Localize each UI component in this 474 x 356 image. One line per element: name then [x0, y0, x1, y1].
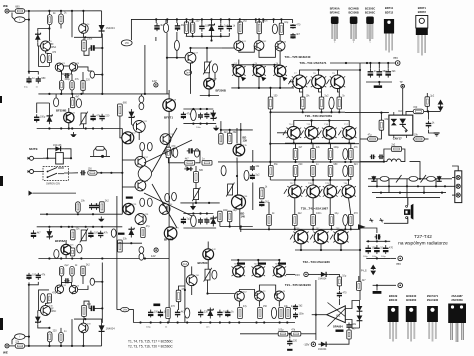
wire emitD2 bot 4: [350, 177, 352, 181]
transistor T14: [159, 204, 173, 215]
junction stage3 bot 5: [101, 257, 103, 259]
wire D coll stub 1: [311, 121, 313, 127]
wire bus2 stub 12: [258, 19, 260, 23]
junction sense b: [77, 213, 79, 215]
wire driver top rail: [221, 129, 253, 131]
wire bus2 stub 11: [255, 19, 257, 23]
wire R49 top: [338, 89, 340, 98]
svg-text:BF245A: BF245A: [330, 6, 340, 10]
capacitor C28: [225, 310, 234, 317]
wire B2 coll stub 2: [257, 260, 259, 266]
wire A2 emits 3: [278, 301, 280, 307]
diode D9 1N4148: [52, 146, 64, 151]
wire opamp top to tri: [338, 299, 340, 305]
wire D2 emit stub 2: [312, 198, 314, 215]
ferrite bead L1: [15, 17, 25, 23]
junction bus caps: [28, 71, 30, 73]
wire R78 top: [358, 276, 360, 281]
wire R46 top: [302, 89, 304, 98]
capacitor C19: [198, 218, 207, 225]
wire x190 vertical: [190, 63, 192, 94]
wire right vertical lower: [101, 263, 103, 323]
capacitor C15: [181, 112, 191, 119]
resistor R47 emitter: [319, 95, 329, 109]
transistor T27: [292, 73, 307, 89]
junction node V+ a: [28, 10, 30, 12]
wire ladder drop 3: [406, 179, 408, 198]
svg-text:BD140: BD140: [389, 298, 398, 302]
capacitor C2 10u: [89, 45, 95, 51]
junction opto feed: [380, 112, 382, 114]
junction ladder 6: [444, 185, 446, 187]
wire B1 base drop: [233, 65, 236, 71]
junction bus3 13: [263, 321, 265, 323]
svg-text:TP: TP: [400, 81, 403, 84]
wire A1 emit to A2 base: [239, 46, 256, 52]
wire J1 to R1: [9, 10, 16, 12]
junction out rail 1: [269, 161, 271, 163]
wire R100 top: [176, 32, 178, 40]
junction out rail 3: [312, 161, 314, 163]
junction ladder 2: [388, 185, 390, 187]
svg-text:T21...T25=BUE240: T21...T25=BUE240: [285, 283, 311, 287]
junction bus caps lower: [28, 284, 30, 286]
resistor R53 emitter: [329, 212, 339, 225]
wire crossing over op-amp A: [328, 303, 346, 317]
svg-text:2SC5171: 2SC5171: [427, 294, 439, 298]
transistor T37: [323, 183, 338, 198]
junction D15 rail: [84, 318, 86, 320]
junction bias rail c: [210, 35, 212, 37]
junction node V+ c: [60, 10, 62, 12]
wire R4 top: [83, 37, 85, 40]
wire opamp in bot: [345, 320, 359, 329]
junction bottom rail 5: [82, 345, 84, 347]
resistor R61: [347, 328, 357, 339]
wire bus2 stub 1: [155, 19, 157, 23]
resistor R82: [59, 330, 68, 342]
wire T51 source up: [46, 303, 50, 306]
capacitor C60: [250, 165, 260, 171]
junction bus3 11: [238, 321, 240, 323]
wire right column: [252, 150, 254, 162]
resistor R48 emitter: [329, 97, 334, 109]
resistor R103: [172, 148, 177, 156]
resistor R37: [100, 199, 110, 212]
svg-text:BF256A: BF256A: [55, 239, 65, 243]
package outline BC550C/BC560C: [365, 6, 375, 43]
svg-text:OPA604: OPA604: [333, 325, 343, 329]
wire R9 bot stub: [82, 90, 84, 94]
wire driver column 3: [168, 239, 170, 323]
junction drv rail c: [240, 129, 242, 131]
resistor R17: [279, 21, 289, 35]
resistor R108b: [228, 209, 238, 222]
wire R72b left: [412, 138, 415, 140]
svg-text:4k7: 4k7: [37, 231, 42, 234]
svg-text:1N4004: 1N4004: [106, 26, 116, 30]
wire C collectors up: [300, 70, 361, 75]
junction bank2 b: [378, 62, 380, 64]
resistor R80 680R: [15, 341, 25, 349]
junction bus3 5: [177, 321, 179, 323]
junction bias rail a: [192, 35, 194, 37]
capacitor C47 1000u: [383, 245, 394, 254]
svg-text:WE: WE: [3, 351, 8, 355]
junction B2 coll 3: [278, 259, 280, 261]
capacitor C40: [426, 121, 435, 129]
capacitor C32: [346, 323, 356, 330]
wire A3 collector: [279, 35, 281, 42]
resistor R107: [219, 131, 229, 144]
wire pair emitters lower: [62, 282, 72, 286]
transistor T20: [135, 214, 149, 226]
capacitor C9: [290, 23, 301, 28]
junction B base 3: [273, 64, 275, 66]
wire zener top rail: [38, 29, 50, 32]
resistor R2 1k: [47, 11, 56, 25]
svg-text:680: 680: [15, 5, 20, 9]
package outline 2SC5171/2SA1930: [427, 294, 439, 342]
wire A2 chain a: [239, 290, 256, 296]
wire T18 drain: [65, 240, 67, 244]
transistor T50: [79, 323, 92, 333]
svg-text:1N4148: 1N4148: [53, 144, 62, 147]
input terminal J5: [5, 344, 9, 348]
junction bot emit 3: [312, 228, 314, 230]
svg-text:680: 680: [199, 169, 204, 172]
wire C52 to right bus: [95, 307, 102, 309]
wire bias stub 5: [220, 33, 222, 36]
capacitor C59: [217, 310, 229, 318]
resistor R9: [81, 78, 91, 90]
wire ladder drop 5: [435, 179, 437, 187]
resistor R114: [140, 198, 145, 206]
resistor R115: [147, 198, 152, 206]
svg-text:T1, T4, T6, T15, T17 = BC550C: T1, T4, T6, T15, T17 = BC550C: [128, 339, 173, 343]
capacitor C66 220u: [377, 68, 388, 77]
wire R73 bot: [426, 106, 428, 111]
wire opamp in top: [345, 301, 359, 309]
resistor R15: [257, 20, 268, 34]
svg-text:2μ2: 2μ2: [255, 174, 260, 177]
svg-text:T2, T3, T5, T16, T20 = BC560C: T2, T3, T5, T16, T20 = BC560C: [128, 345, 173, 349]
resistor R11: [163, 23, 168, 32]
resistor R116: [111, 229, 116, 237]
resistor R125 emitter D6: [293, 163, 303, 176]
wire bus2 stub 8: [220, 19, 222, 23]
wire crossing over op-amp B: [328, 309, 346, 327]
wire R1 to top rail: [25, 10, 102, 12]
junction coil R: [70, 157, 72, 159]
wire T3 source down: [46, 51, 50, 54]
wire L3 to bus: [25, 336, 29, 338]
resistor R110: [244, 170, 249, 180]
junction T11 base node: [176, 57, 178, 59]
junction node V+ d: [71, 10, 73, 12]
resistor R56: [258, 305, 268, 318]
resistor R105: [172, 192, 177, 200]
wire T55 emitter: [191, 286, 193, 295]
transistor T46: [255, 291, 267, 302]
trimmer P2: [80, 228, 88, 242]
svg-text:BC550C: BC550C: [365, 6, 375, 10]
wire balloon lower to bus3: [129, 310, 133, 323]
wire driver column 2: [168, 111, 170, 228]
wire J5 up hook: [12, 337, 15, 344]
svg-text:15V: 15V: [295, 273, 300, 277]
wire left vertical bus lower: [28, 285, 30, 346]
wire D2 stub 3: [329, 180, 331, 185]
capacitor C12 47u: [34, 114, 46, 122]
junction emit rail 2: [302, 111, 304, 113]
wire C emit 2: [319, 89, 322, 92]
wire D2 coll rail: [270, 179, 348, 181]
junction bias mid f: [206, 123, 208, 125]
transistor T12 BF256B: [204, 78, 218, 89]
wire zener top2: [37, 310, 39, 314]
wire C base rail: [289, 81, 294, 83]
junction bank2 d: [378, 81, 380, 83]
wire bus2 stub 2: [166, 19, 168, 23]
junction bus2 node 9: [228, 18, 230, 20]
package outline BF245A/BF246C: [330, 6, 340, 43]
junction bottom rail 4: [71, 345, 73, 347]
svg-text:100μ: 100μ: [278, 329, 284, 332]
svg-text:78V: 78V: [393, 56, 398, 60]
wire D15 top rail: [74, 319, 102, 323]
resistor R72: [413, 106, 424, 114]
wire vbe bottom rail: [180, 202, 219, 204]
wire T4 drain: [68, 108, 70, 112]
junction bus2 node 13: [262, 18, 264, 20]
junction stage3 top 6: [92, 226, 94, 228]
capacitor C53: [64, 278, 69, 283]
wire A2 emits 2: [258, 301, 260, 307]
arrow WY mid: [358, 224, 366, 229]
wire D emit rail ext: [270, 143, 359, 145]
jack plug J4 speaker sense: [29, 191, 77, 196]
wire C2 link: [84, 48, 89, 55]
junction D1 rail a: [84, 36, 86, 38]
wire B2 emit: [258, 77, 260, 88]
resistor R83: [82, 303, 92, 316]
terminal -15V: [311, 342, 315, 346]
wire T56 links: [207, 260, 209, 270]
wire bank bottom rail: [366, 257, 390, 259]
terminal TP 12V: [154, 83, 158, 87]
wire 15V left link: [286, 273, 295, 275]
wire B base rail: [231, 64, 280, 66]
wire emitD2 bot 2: [312, 177, 314, 181]
junction bias mid b: [199, 108, 201, 110]
junction D emit 3: [328, 142, 330, 144]
junction D emit 4: [348, 142, 350, 144]
junction drv rail b: [229, 129, 231, 131]
svg-text:10μ: 10μ: [284, 21, 289, 24]
svg-text:680: 680: [333, 163, 338, 166]
svg-text:150: 150: [413, 106, 418, 109]
wire bias bottom rail mid: [183, 123, 216, 125]
svg-text:T26...T31=2SC5171: T26...T31=2SC5171: [300, 61, 327, 65]
junction zener node lower: [48, 327, 50, 329]
wire D1 bottom rail: [74, 34, 102, 38]
wire C40 top: [428, 111, 430, 119]
wire ladder drop 1: [376, 179, 378, 187]
trimmer P1: [80, 112, 88, 126]
resistor R81: [47, 329, 57, 341]
wire emitter rail mid: [271, 111, 346, 113]
wire x199 vertical: [200, 95, 219, 97]
junction stage2 bot 7: [101, 127, 103, 129]
capacitor C42: [378, 155, 384, 160]
wire bus to D1: [101, 11, 103, 23]
svg-text:100μ: 100μ: [363, 256, 368, 258]
zener diode D6: [210, 110, 216, 121]
capacitor C22 100u: [88, 231, 100, 238]
svg-text:3k3: 3k3: [354, 163, 359, 166]
capacitor C33: [287, 339, 298, 346]
resistor R41: [147, 142, 152, 150]
wire D2 stub 4: [348, 180, 350, 185]
wire T4 source: [68, 123, 70, 129]
junction R89 bus: [101, 281, 103, 283]
junction drv2 a: [229, 225, 231, 227]
transistor T6: [122, 132, 137, 145]
resistor R113: [176, 288, 186, 302]
wire speaker feed: [407, 198, 409, 206]
wire zobel out: [410, 162, 421, 179]
capacitor C62: [259, 200, 269, 206]
wire R50 top: [268, 202, 270, 215]
wire bias2 bottom rail: [183, 227, 216, 229]
svg-text:220: 220: [53, 329, 58, 332]
wire C emit 1: [300, 89, 303, 92]
svg-text:BF256B: BF256B: [216, 89, 226, 93]
transistor T30: [286, 124, 301, 139]
svg-text:4k7: 4k7: [296, 33, 301, 36]
junction ladder 5: [435, 185, 437, 187]
terminal block screw 3: [456, 193, 460, 197]
junction drv2 b: [240, 225, 242, 227]
wire R11 top: [165, 19, 167, 23]
transistor T43: [252, 263, 266, 277]
junction B base 2: [252, 64, 254, 66]
junction bus3 9: [219, 321, 221, 323]
resistor R85: [47, 292, 56, 303]
wire TP to opto: [402, 88, 404, 115]
resistor R63: [291, 329, 301, 336]
junction D rail left: [269, 143, 271, 145]
junction zobel: [383, 161, 385, 163]
transistor T5 MJE350: [79, 24, 91, 34]
resistor R128 emitter D9: [343, 166, 348, 177]
resistor R55: [238, 305, 248, 318]
transistor T11: [185, 52, 199, 63]
wire right vertical x102: [101, 34, 103, 94]
transistor T13: [160, 134, 174, 145]
junction C coll mid: [317, 69, 319, 71]
wire tb feed 1: [452, 177, 455, 179]
zener diode D3: [209, 23, 215, 34]
capacitor C50: [26, 273, 38, 280]
terminal +15V: [304, 272, 308, 276]
resistor R36: [76, 199, 86, 212]
wire A2 collector: [258, 34, 260, 41]
resistor R104: [165, 193, 170, 201]
junction stage3 top 2: [60, 226, 62, 228]
wire B3 emit: [279, 77, 281, 88]
wire bias stub 3: [201, 33, 203, 36]
wire T2 collector right: [78, 67, 88, 71]
junction D2 coll 3: [329, 179, 331, 181]
ground sense: [98, 217, 104, 222]
wire T5 emitter: [82, 33, 84, 37]
wire R71 left: [360, 138, 368, 140]
svg-text:100μ: 100μ: [146, 327, 151, 329]
svg-text:1N4004: 1N4004: [318, 348, 327, 351]
wire diagonal drive lower B: [152, 184, 177, 228]
junction D emit 1: [293, 142, 295, 144]
transistor T24: [232, 63, 246, 77]
svg-text:na wspólnym radiatorze: na wspólnym radiatorze: [398, 240, 448, 245]
junction out rail 4: [329, 161, 331, 163]
package outline BC546B/BC556B: [348, 6, 358, 43]
resistor R102: [165, 147, 170, 155]
transistor T38: [341, 183, 356, 198]
resistor R129 emitter D10: [349, 163, 359, 176]
svg-text:220: 220: [293, 340, 298, 343]
capacitor C26: [94, 203, 103, 210]
wire balloon up to bus2: [131, 19, 292, 40]
diode D15 1N4004: [99, 323, 116, 334]
junction bot emit 6: [350, 228, 352, 230]
junction stage3 top 7: [101, 226, 103, 228]
junction bus2 node 3: [176, 18, 178, 20]
cap plate above T17: [126, 197, 133, 199]
junction C coll right: [359, 69, 361, 71]
junction stage2 bot 2: [60, 127, 62, 129]
ground bar bank2: [374, 85, 382, 88]
wire bot emit stub 5: [344, 226, 346, 230]
junction stage2 rail 1: [48, 93, 50, 95]
junction fb mid: [289, 333, 291, 335]
capacitor C20: [204, 218, 214, 225]
arrow P-LS: [370, 265, 376, 276]
wire R72 right: [424, 110, 441, 112]
wire D2 emit stub 3: [329, 198, 331, 215]
wire A2 base chain 1: [208, 293, 235, 295]
wire zobel left: [360, 161, 384, 163]
svg-text:BC546B: BC546B: [348, 6, 358, 10]
transistor T41: [333, 228, 348, 244]
junction ladder b 4: [441, 192, 443, 194]
wire bus2 stub 9: [228, 19, 230, 23]
junction opamp out: [315, 314, 317, 316]
junction bias2 b: [199, 212, 201, 214]
wire bias stub 6: [228, 33, 230, 36]
resistor R107b: [218, 209, 229, 222]
wire ladder drop 4: [423, 186, 425, 192]
resistor R75: [380, 176, 389, 181]
wire J5 to R80: [9, 345, 16, 347]
junction neg supply: [376, 284, 378, 286]
transistor T56 BF256C: [203, 249, 217, 260]
wire zener bottom: [37, 43, 40, 47]
wire fb chain 2: [288, 333, 291, 335]
capacitor C3: [64, 73, 69, 78]
svg-text:-15V: -15V: [304, 342, 310, 346]
